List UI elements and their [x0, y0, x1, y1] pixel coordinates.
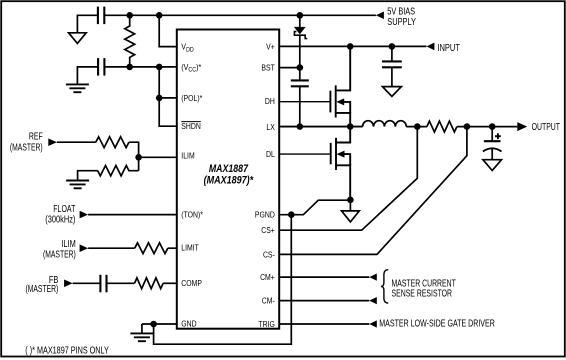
node LX / MOSFETs: [347, 123, 354, 130]
node POL junction: [156, 95, 163, 102]
wire CS- trace: [279, 127, 467, 255]
svg-text:INPUT: INPUT: [437, 42, 460, 53]
wire CS+ trace: [279, 127, 417, 231]
wire to OUTPUT arrow: [457, 126, 517, 128]
wire R3 to ILIM node: [129, 142, 177, 157]
svg-text:LX: LX: [266, 122, 274, 132]
wire CM-: [279, 300, 369, 302]
wire VCC row to pin: [104, 66, 176, 68]
node GND: [150, 321, 157, 328]
svg-text:SHDN: SHDN: [181, 122, 201, 132]
svg-text:( )* MAX1897 PINS ONLY: ( )* MAX1897 PINS ONLY: [25, 344, 109, 356]
ground (triangle, output cap): [483, 160, 502, 171]
wire C6 to R6: [107, 282, 135, 284]
node CS+ / inductor out: [414, 123, 421, 130]
transistor Q1 high-side NMOS: [330, 46, 350, 126]
arrow ILIM (MASTER): [80, 244, 89, 252]
ground (earth, GND pin): [141, 324, 143, 333]
inductor L1: [363, 121, 407, 127]
svg-text:(MASTER): (MASTER): [43, 248, 76, 260]
wire VDD riser: [159, 15, 177, 46]
svg-text:SENSE RESISTOR: SENSE RESISTOR: [392, 287, 453, 299]
svg-text:DH: DH: [265, 96, 275, 106]
wire POL/SHDN riser: [159, 67, 177, 126]
ground (analog triangle, top-left): [69, 33, 87, 44]
node VCC / R1 bottom: [126, 64, 133, 71]
wire R5 to LIMIT pin: [168, 247, 177, 249]
svg-text:GND: GND: [181, 319, 197, 329]
wire DH gate: [279, 101, 330, 103]
wire V+ rail to INPUT: [279, 45, 426, 47]
node top rail / R1: [126, 12, 133, 19]
resistor R2 current sense: [427, 121, 457, 132]
svg-text:ILIM: ILIM: [181, 151, 194, 161]
transistor Q1 body arrow: [336, 98, 344, 105]
ground (triangle, PGND node): [349, 200, 351, 211]
wire PGND-GND return loop: [154, 215, 292, 345]
diode D1 schottky symbol: [294, 27, 307, 39]
svg-text:MAX1887: MAX1887: [209, 163, 249, 175]
ground (earth, below C2): [66, 84, 89, 92]
node PGND: [288, 211, 295, 218]
node output cap: [489, 123, 496, 130]
transistor Q2 low-side NMOS: [331, 127, 351, 200]
svg-text:CS+: CS+: [261, 226, 275, 236]
resistor R3 (REF to ILIM): [96, 137, 129, 148]
wire PGND trace: [279, 200, 350, 215]
svg-text:LIMIT: LIMIT: [181, 243, 199, 253]
node VCC riser: [156, 64, 163, 71]
capacitor C3 (bootstrap): [299, 68, 301, 81]
plus sign output cap: [495, 133, 501, 139]
svg-text:TRIG: TRIG: [258, 319, 274, 329]
node BST: [297, 64, 304, 71]
svg-text:V+: V+: [266, 42, 275, 52]
svg-text:(MASTER): (MASTER): [25, 283, 58, 295]
arrow 5V BIAS SUPPLY: [376, 12, 384, 20]
svg-text:(TON)*: (TON)*: [181, 210, 203, 220]
wire POL stub: [159, 97, 177, 99]
transistor Q2 body arrow: [337, 151, 345, 158]
resistor R6 (COMP): [135, 278, 164, 289]
wire DL gate: [279, 153, 331, 155]
capacitor C6 (COMP series) plates: [100, 275, 106, 293]
wire VCC row left corner: [77, 67, 98, 85]
diode D1 (schottky) cathode wire to BST: [299, 35, 301, 67]
svg-text:CM+: CM+: [260, 272, 275, 282]
wire CM+: [279, 276, 369, 278]
arrow CM-: [369, 297, 377, 304]
arrow TRIG: [369, 320, 377, 327]
diode D1 anode wire: [299, 15, 301, 27]
brace master current sense: [381, 270, 388, 303]
ground (triangle, input cap): [382, 87, 401, 97]
arrow REF (MASTER): [48, 138, 57, 146]
svg-text:(MAX1897)*: (MAX1897)*: [204, 175, 255, 187]
svg-text:OUTPUT: OUTPUT: [532, 121, 561, 133]
node top rail / VDD riser: [156, 12, 163, 19]
svg-text:PGND: PGND: [255, 210, 275, 220]
svg-text:BST: BST: [261, 63, 275, 73]
svg-text:MASTER LOW-SIDE GATE DRIVER: MASTER LOW-SIDE GATE DRIVER: [379, 317, 495, 329]
wire inductor to sense resistor: [406, 126, 427, 128]
svg-text:SUPPLY: SUPPLY: [387, 16, 416, 27]
capacitor C5 output (polarized): [491, 127, 493, 142]
node top rail / diode: [297, 12, 304, 19]
wire TRIG: [279, 323, 369, 325]
arrow OUTPUT: [517, 122, 527, 131]
ground (earth, ILIM divider): [66, 181, 89, 189]
wire FLOAT to TON: [88, 214, 177, 216]
capacitor C2 (VCC bypass) plates: [98, 58, 104, 76]
svg-text:(POL)*: (POL)*: [181, 93, 202, 103]
arrow FLOAT (300kHz): [80, 211, 89, 219]
svg-text:(MASTER): (MASTER): [10, 141, 43, 153]
arrow INPUT: [426, 43, 434, 51]
capacitor C1 (5V bias bypass) plates: [98, 7, 104, 25]
wire LX rail: [279, 126, 362, 128]
wire top rail to 5V BIAS arrow: [104, 14, 376, 16]
resistor R1 (VDD RC filter) vertical: [125, 15, 135, 67]
node ILIM divider: [135, 154, 142, 161]
resistor R5 (LIMIT): [135, 243, 168, 254]
node input cap: [389, 43, 396, 50]
svg-text:(300kHz): (300kHz): [45, 213, 75, 224]
wire REF row: [57, 141, 96, 143]
svg-text:CS-: CS-: [263, 250, 275, 260]
node CS- / resistor out: [464, 123, 471, 130]
wire R4 to ground: [78, 171, 98, 181]
wire ILIM(MASTER) row: [88, 247, 135, 249]
wire FB row: [73, 282, 101, 284]
arrow FB (MASTER): [64, 280, 73, 288]
wire R6 to COMP pin: [163, 282, 177, 284]
node V+ / Q1 drain: [347, 43, 354, 50]
resistor R4 (ILIM to GND): [138, 157, 140, 170]
svg-text:DL: DL: [266, 149, 275, 159]
wire top rail left segment: [77, 15, 98, 33]
node LX / bootstrap cap: [297, 123, 304, 130]
node PGND / Q2 source: [347, 197, 354, 204]
wire BST stub: [279, 67, 300, 69]
arrow CM+: [369, 274, 377, 281]
IC U1 MAX1887/MAX1897 box: [177, 30, 279, 329]
capacitor C4 input bypass: [391, 46, 393, 61]
wire GND pin to ground: [142, 323, 177, 325]
svg-text:COMP: COMP: [181, 278, 202, 288]
svg-text:CM-: CM-: [262, 296, 275, 306]
